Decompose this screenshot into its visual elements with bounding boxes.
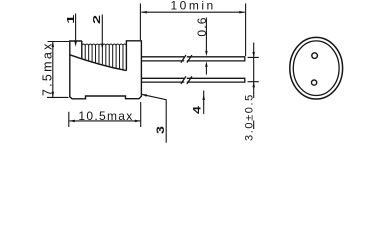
svg-text:10min: 10min bbox=[171, 0, 216, 13]
svg-text:2: 2 bbox=[91, 14, 102, 24]
svg-text:4: 4 bbox=[190, 105, 203, 114]
svg-text:0.6: 0.6 bbox=[195, 16, 209, 36]
svg-text:7.5max: 7.5max bbox=[41, 41, 55, 96]
svg-text:3: 3 bbox=[153, 126, 166, 134]
svg-text:3.0±0.5: 3.0±0.5 bbox=[243, 93, 255, 141]
svg-text:10.5max: 10.5max bbox=[78, 109, 133, 123]
svg-text:1: 1 bbox=[65, 14, 76, 24]
